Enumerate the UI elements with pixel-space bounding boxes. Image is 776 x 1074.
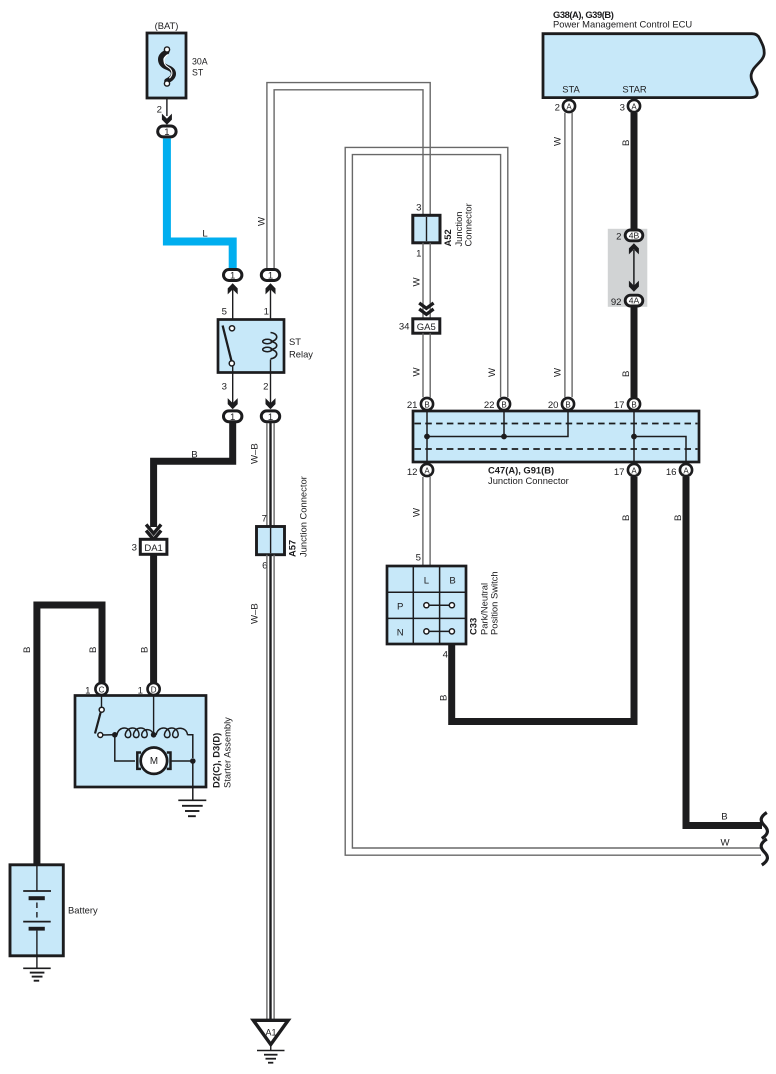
wire label W (rotated) [412,507,423,517]
node dot 17 [631,434,637,440]
connector oval 1 (relay pin3 downstream) [224,411,242,422]
C33 grid lines [412,567,414,643]
wire W-B relay pin2 to A57: outer gray lines [266,423,268,527]
connector oval 1 (relay pin2 downstream) [261,411,279,422]
svg-text:4: 4 [443,650,449,661]
connector arrow down (4A) [629,281,639,292]
svg-text:W: W [257,216,268,226]
wire B C33 pin4 to 17(A) [452,477,634,722]
svg-text:16: 16 [666,467,677,478]
svg-text:D2(C), D3(D): D2(C), D3(D) [211,733,222,788]
svg-text:2: 2 [157,105,162,116]
wire stub to relay pin1 [270,289,272,333]
svg-text:1: 1 [164,127,169,138]
starter switch stub from C [101,696,103,708]
svg-text:30A: 30A [192,57,208,67]
svg-text:B: B [501,400,506,409]
A52 labels [442,229,453,246]
splice chevrons above DA1 [146,525,161,534]
svg-text:M: M [150,756,158,767]
relay switch blade [223,326,232,362]
ground A1 bars [270,1045,272,1051]
svg-text:D: D [151,685,157,694]
starter switch top contact [99,707,104,712]
battery internal stub bottom [36,931,38,956]
wire B DA1 to starter pin D [150,554,157,683]
starter labels D2(C), D3(D) Starter Assembly [211,733,222,788]
wire stub relay pin2 down [270,360,272,404]
svg-text:4A: 4A [629,296,640,306]
wire B battery to starter pin C [37,605,102,865]
wire stub from D down [153,696,155,735]
wire label W (above 21B) [412,367,423,377]
svg-text:B: B [424,400,429,409]
svg-text:C33: C33 [468,618,479,635]
battery plate 2 (long) [23,921,51,923]
fuse 30A ST box [147,33,186,98]
svg-text:P: P [397,602,403,613]
wire W STA to 20(B): double line [564,113,566,398]
ground (battery) bars [23,967,51,969]
svg-text:17: 17 [614,400,625,411]
svg-text:STA: STA [562,84,580,95]
connector arrow up (relay pin5) [228,283,238,294]
svg-text:L: L [202,229,208,240]
svg-text:Power Management Control ECU: Power Management Control ECU [553,18,692,29]
svg-text:B: B [191,450,197,461]
node (junction dot middle) [151,732,157,738]
wire label W-B (rotated, below A57) [250,603,261,624]
C33 contact P [429,604,450,606]
wire W from A52 loop to relay pin1: outer line [267,83,430,269]
wire label B (rotated, pin C) [88,647,99,653]
svg-text:B: B [621,140,632,146]
motor left bracket [137,753,141,769]
wire label B (above 17B) [621,371,632,377]
wire stub to relay pin5 [232,289,234,326]
svg-text:3: 3 [416,203,421,214]
A57 labels [287,540,298,557]
starter switch blade [95,713,101,734]
wire label B (top) [621,140,632,146]
battery plate 1 (long) [23,890,51,892]
svg-text:GA5: GA5 [417,322,436,333]
svg-text:3: 3 [222,382,227,393]
junction connector C47(A),G91(B) box [413,411,699,462]
battery plate 1 (thick short) [29,896,45,900]
wire fuse pin2 stub [166,98,168,116]
svg-text:W: W [553,136,564,146]
svg-text:Junction Connector: Junction Connector [298,476,309,557]
battery internal stub top [36,866,38,891]
svg-text:B: B [88,647,99,653]
svg-text:1: 1 [264,307,269,318]
node dot 21 [424,434,430,440]
svg-text:N: N [397,628,404,639]
wire W-B center black stripe [269,423,271,527]
svg-text:B: B [621,371,632,377]
svg-text:C47(A), G91(B): C47(A), G91(B) [488,465,554,476]
svg-text:1: 1 [268,271,273,282]
svg-text:1: 1 [268,412,273,423]
svg-text:B: B [565,400,570,409]
wire label B (rotated, battery) [22,647,33,653]
svg-text:34: 34 [399,322,410,333]
relay switch contact bottom [229,361,234,366]
svg-text:1: 1 [416,249,421,260]
svg-text:A: A [683,466,689,475]
svg-text:W: W [412,277,423,287]
svg-text:STAR: STAR [622,84,647,95]
wire label B (rotated, C33) [439,695,450,701]
svg-text:W: W [412,507,423,517]
motor M circle [141,748,167,774]
ST relay box [218,320,284,373]
svg-text:A1: A1 [265,1028,276,1038]
wire contact to node [103,734,113,736]
starter assembly box [75,696,206,788]
wire B relay pin3 to DA1 [154,423,233,527]
junction connector A57 box [257,527,285,555]
svg-text:B: B [621,515,632,521]
connector arrow into oval 1 (fuse) [162,114,172,125]
node dot 22 [501,434,507,440]
svg-text:B: B [673,515,684,521]
splice chevrons above GA5 [419,303,433,308]
wire node to ground [192,761,194,800]
off-page break squiggle (W wire) [761,839,767,865]
wire L (cyan) fuse to relay pin 5 [167,139,233,269]
junction connector A52 box [413,215,440,243]
wire W A52 pin1 to GA5: double line [422,243,424,319]
starter field coil 2 [156,728,187,738]
svg-text:C: C [99,685,105,694]
park/neutral position switch C33 box [387,566,466,644]
svg-text:B: B [449,576,455,587]
wire label W (left of 22B) [487,367,498,377]
wire label B (rotated, below 16A) [673,515,684,521]
connector oval 1 (relay pin1 upstream) [261,270,279,281]
svg-text:21: 21 [407,400,418,411]
svg-text:W: W [487,367,498,377]
svg-text:B: B [631,400,636,409]
relay coil [271,333,277,359]
fuse element symbol [161,52,174,81]
wire label B (rotated) [140,647,151,653]
svg-text:2: 2 [616,232,621,243]
svg-text:W–B: W–B [250,443,261,464]
svg-text:1: 1 [230,412,235,423]
wire label W (above 20B) [553,367,564,377]
wire B 16(A) to off-page [686,477,762,826]
svg-text:3: 3 [620,103,625,114]
svg-text:DA1: DA1 [144,543,162,554]
svg-text:B: B [140,647,151,653]
wire stub relay pin3 down [232,366,234,404]
ground (battery) stem [36,956,38,968]
wire label W-B (rotated) [250,443,261,464]
svg-text:2: 2 [263,382,268,393]
wire B STAR to 4B [631,113,638,230]
gray connector background [608,229,648,307]
wire coil2 to right corner [187,735,193,758]
ground A1 triangle [253,1020,288,1044]
svg-text:5: 5 [222,307,227,318]
connector arrow up (4B) [629,243,639,254]
svg-text:4B: 4B [629,230,640,240]
junction internal net 21-22-20-12 [426,412,428,461]
junction bus dashed lines [415,423,698,425]
C33 contact N [429,630,450,632]
connector arrow down (relay pin2) [266,398,276,409]
wire W loop inner line [274,90,423,269]
ground (starter) [178,799,206,801]
wire W-B A57 to ground A1 [266,555,268,1020]
svg-text:A: A [424,466,430,475]
battery plate 2 (thick short) [29,927,45,931]
svg-text:W: W [720,838,730,849]
svg-text:A: A [566,102,572,111]
svg-text:17: 17 [614,467,625,478]
battery dashed middle [36,903,38,920]
svg-text:1: 1 [230,271,235,282]
svg-text:Battery: Battery [68,905,98,916]
wire label W (top) [553,136,564,146]
svg-text:Connector: Connector [463,203,474,246]
wire label W (rotated) [412,277,423,287]
svg-text:5: 5 [416,553,421,564]
svg-text:7: 7 [262,514,267,525]
relay switch contact top [229,326,234,331]
svg-text:A: A [631,466,637,475]
svg-text:12: 12 [407,467,418,478]
wire W loop 22(B) inner line [352,155,761,848]
connector oval 1 (relay pin5 upstream) [224,270,242,281]
svg-text:2: 2 [555,103,560,114]
svg-text:W–B: W–B [250,603,261,624]
svg-text:3: 3 [132,543,137,554]
svg-text:22: 22 [484,400,495,411]
C33 labels [468,618,479,635]
motor right bracket [167,753,171,769]
starter pin C circle [95,683,107,695]
connector arrow down (relay pin3) [228,398,238,409]
splice DA1 box [140,539,167,554]
off-page break squiggle (B wire) [761,813,767,839]
svg-text:B: B [439,695,450,701]
power management control ECU box (wavy right edge) [543,34,764,98]
svg-text:L: L [424,576,430,587]
svg-text:Relay: Relay [289,349,313,360]
svg-text:A52: A52 [442,229,453,246]
wire label W (loop) [257,216,268,226]
starter switch bottom contact [98,733,103,738]
svg-text:W: W [412,367,423,377]
svg-text:A: A [631,102,637,111]
node (junction dot right) [190,758,196,764]
svg-text:B: B [22,647,33,653]
battery box [10,865,63,956]
svg-text:20: 20 [548,400,559,411]
connector arrow up (relay pin1) [266,283,276,294]
connector oval 1 (fuse) [158,126,176,137]
wire W GA5 to 21(B) [422,333,424,397]
svg-text:(BAT): (BAT) [155,20,179,31]
junction internal net 17-16 [633,412,635,461]
wire W loop 22(B) to off-page: outer line [345,147,761,855]
ground splice GA5 box [413,319,440,333]
wire label B (rotated, below 17A) [621,515,632,521]
svg-text:Starter Assembly: Starter Assembly [222,717,233,788]
starter pin D circle [148,683,160,695]
starter field coil 1 [117,728,153,738]
svg-text:ST: ST [289,336,301,347]
wire between 4B and 4A [633,250,635,286]
wire W 12(A) to C33 pin5 [422,477,424,566]
svg-text:ST: ST [192,68,204,78]
wire B 4A to 17(B) [631,308,638,398]
svg-text:92: 92 [611,297,622,308]
wire left node down to motor level [115,735,135,761]
node (junction dot left) [112,732,118,738]
svg-text:A57: A57 [287,540,298,557]
svg-text:Position Switch: Position Switch [489,571,500,635]
wire motor right to node [171,760,193,762]
svg-text:W: W [553,367,564,377]
svg-text:Junction Connector: Junction Connector [488,475,569,486]
svg-text:B: B [721,812,727,823]
